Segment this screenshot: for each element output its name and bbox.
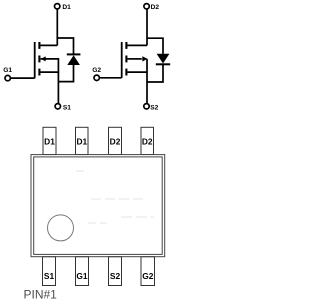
gate line Q2 [121, 42, 123, 78]
svg-text:G2: G2 [92, 67, 101, 74]
node S2 terminal circle [144, 104, 149, 109]
package SO-8 bottom pin 4 [141, 257, 155, 286]
package SO-8 top pin 5 [141, 127, 154, 154]
package body inner outline [34, 157, 163, 255]
wire D1 drain vertical [56, 9, 58, 45]
arrow body of Q1 (N-channel, pointing to gate) [41, 56, 46, 61]
transistor Q1 N-channel MOSFET [5, 4, 74, 109]
arrow body of Q2 (P-channel, pointing to source line) [142, 56, 147, 61]
wire diode branch bottom Q2 [147, 65, 163, 82]
svg-text:G1: G1 [76, 271, 88, 281]
node D2 terminal circle [144, 4, 149, 9]
wire diode branch bottom [58, 65, 73, 82]
diode D-Q1 body diode cathode bar [67, 53, 81, 55]
channel bottom bar Q1 [38, 69, 40, 76]
wire G1 lead [11, 77, 35, 79]
wire source stub Q2 [127, 71, 147, 73]
channel middle bar Q1 [38, 56, 40, 63]
package SO-8 bottom pin 3 [109, 257, 122, 286]
wire source vertical to S2 [146, 59, 148, 104]
transistor Q2 P-channel MOSFET [94, 4, 163, 109]
package SO-8 top pin 8 [43, 127, 56, 154]
wire diode branch top Q2 [147, 38, 163, 54]
wire drain stub [39, 44, 57, 46]
wire source stub [40, 71, 59, 73]
svg-text:G1: G1 [3, 67, 12, 74]
wire body stub Q2 [127, 58, 141, 60]
watermark remnant dashes [76, 171, 154, 223]
svg-text:S1: S1 [44, 271, 55, 281]
channel bottom bar Q2 [125, 69, 127, 76]
svg-text:S2: S2 [150, 105, 158, 112]
svg-text:D1: D1 [76, 137, 87, 147]
wire D2 drain vertical [146, 9, 148, 45]
svg-text:D2: D2 [142, 137, 153, 147]
node D1 terminal circle [55, 4, 60, 9]
gate line Q1 [34, 42, 36, 78]
package SO-8 bottom pin 1 [43, 257, 56, 286]
svg-text:D1: D1 [62, 4, 71, 11]
wire source vertical to S1 [57, 59, 59, 104]
svg-text:D2: D2 [110, 137, 121, 147]
svg-text:D1: D1 [44, 137, 55, 147]
wire drain stub Q2 [126, 44, 147, 46]
node S1 terminal circle [55, 104, 60, 109]
svg-text:S1: S1 [63, 105, 71, 112]
node G2 terminal circle [94, 75, 99, 80]
wire body stub [41, 58, 60, 60]
package SO-8 top pin 6 [109, 127, 122, 154]
svg-text:G2: G2 [142, 271, 154, 281]
channel top bar Q2 [125, 42, 127, 49]
svg-text:S2: S2 [110, 271, 121, 281]
wire G2 lead [100, 77, 122, 79]
package body outer outline [31, 155, 165, 257]
package SO-8 top pin 7 [76, 127, 89, 154]
svg-text:D2: D2 [151, 4, 160, 11]
diode D-Q1 body diode triangle [67, 55, 80, 65]
channel top bar Q1 [38, 42, 40, 49]
package SO-8 bottom pin 2 [76, 257, 89, 286]
svg-text:PIN#1: PIN#1 [24, 287, 58, 301]
wire diode branch top [57, 38, 73, 54]
node G1 terminal circle [5, 75, 10, 80]
channel middle bar Q2 [125, 56, 127, 63]
diode D-Q2 body diode triangle (pointing down) [157, 54, 170, 64]
diode D-Q2 body diode cathode bar [156, 63, 170, 65]
pin 1 indicator dimple [48, 215, 74, 241]
